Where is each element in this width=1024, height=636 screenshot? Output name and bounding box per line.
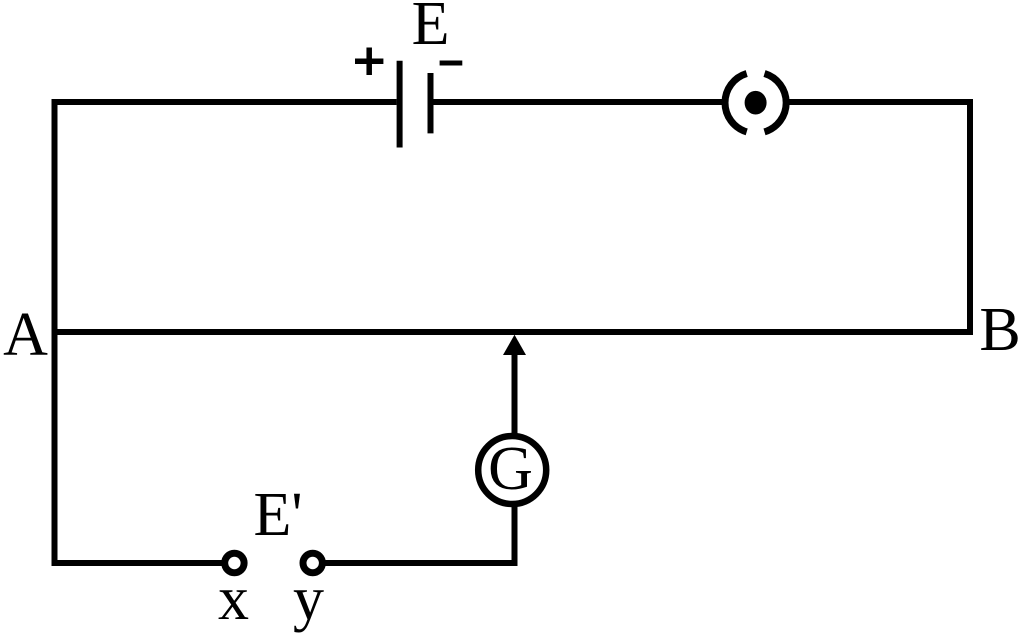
- wire: potentiometer wire A-B: [52, 329, 974, 335]
- svg-text:x: x: [218, 565, 249, 633]
- terminal x open circle: [225, 553, 244, 572]
- plug key: center dot: [745, 91, 767, 115]
- wire: top segment from left corner to battery positive plate: [52, 99, 397, 105]
- wire: left vertical from top wire through node A down to cell branch: [52, 99, 58, 566]
- wire: top segment from battery negative plate to plug key: [433, 99, 723, 105]
- svg-text:B: B: [979, 296, 1020, 364]
- wire: bottom segment from left vertical to terminal x: [52, 560, 223, 566]
- battery E negative plate (short): [428, 73, 434, 133]
- plug key: right arc: [765, 74, 787, 132]
- battery E positive plate (long): [397, 61, 403, 148]
- jockey arrowhead touching wire AB: [503, 335, 526, 355]
- wire: riser from bottom wire up to galvanometer: [512, 504, 518, 566]
- plug key: left arc: [725, 74, 747, 132]
- battery polarity plus sign: [355, 48, 383, 76]
- svg-text:E': E': [253, 481, 302, 549]
- svg-text:G: G: [488, 435, 533, 503]
- svg-text:A: A: [3, 301, 48, 369]
- wire: jockey stem from galvanometer up toward wire AB: [512, 352, 518, 436]
- terminal y open circle: [303, 553, 322, 572]
- battery polarity minus sign: [440, 61, 463, 66]
- wire: top segment from plug key to right corner: [788, 99, 973, 105]
- wire: right vertical from top wire down to node B: [967, 99, 973, 335]
- wire: bottom segment from terminal y to galvanometer corner: [325, 560, 518, 566]
- svg-text:E: E: [412, 0, 450, 58]
- svg-text:y: y: [293, 565, 324, 633]
- galvanometer G circle: [478, 436, 546, 504]
